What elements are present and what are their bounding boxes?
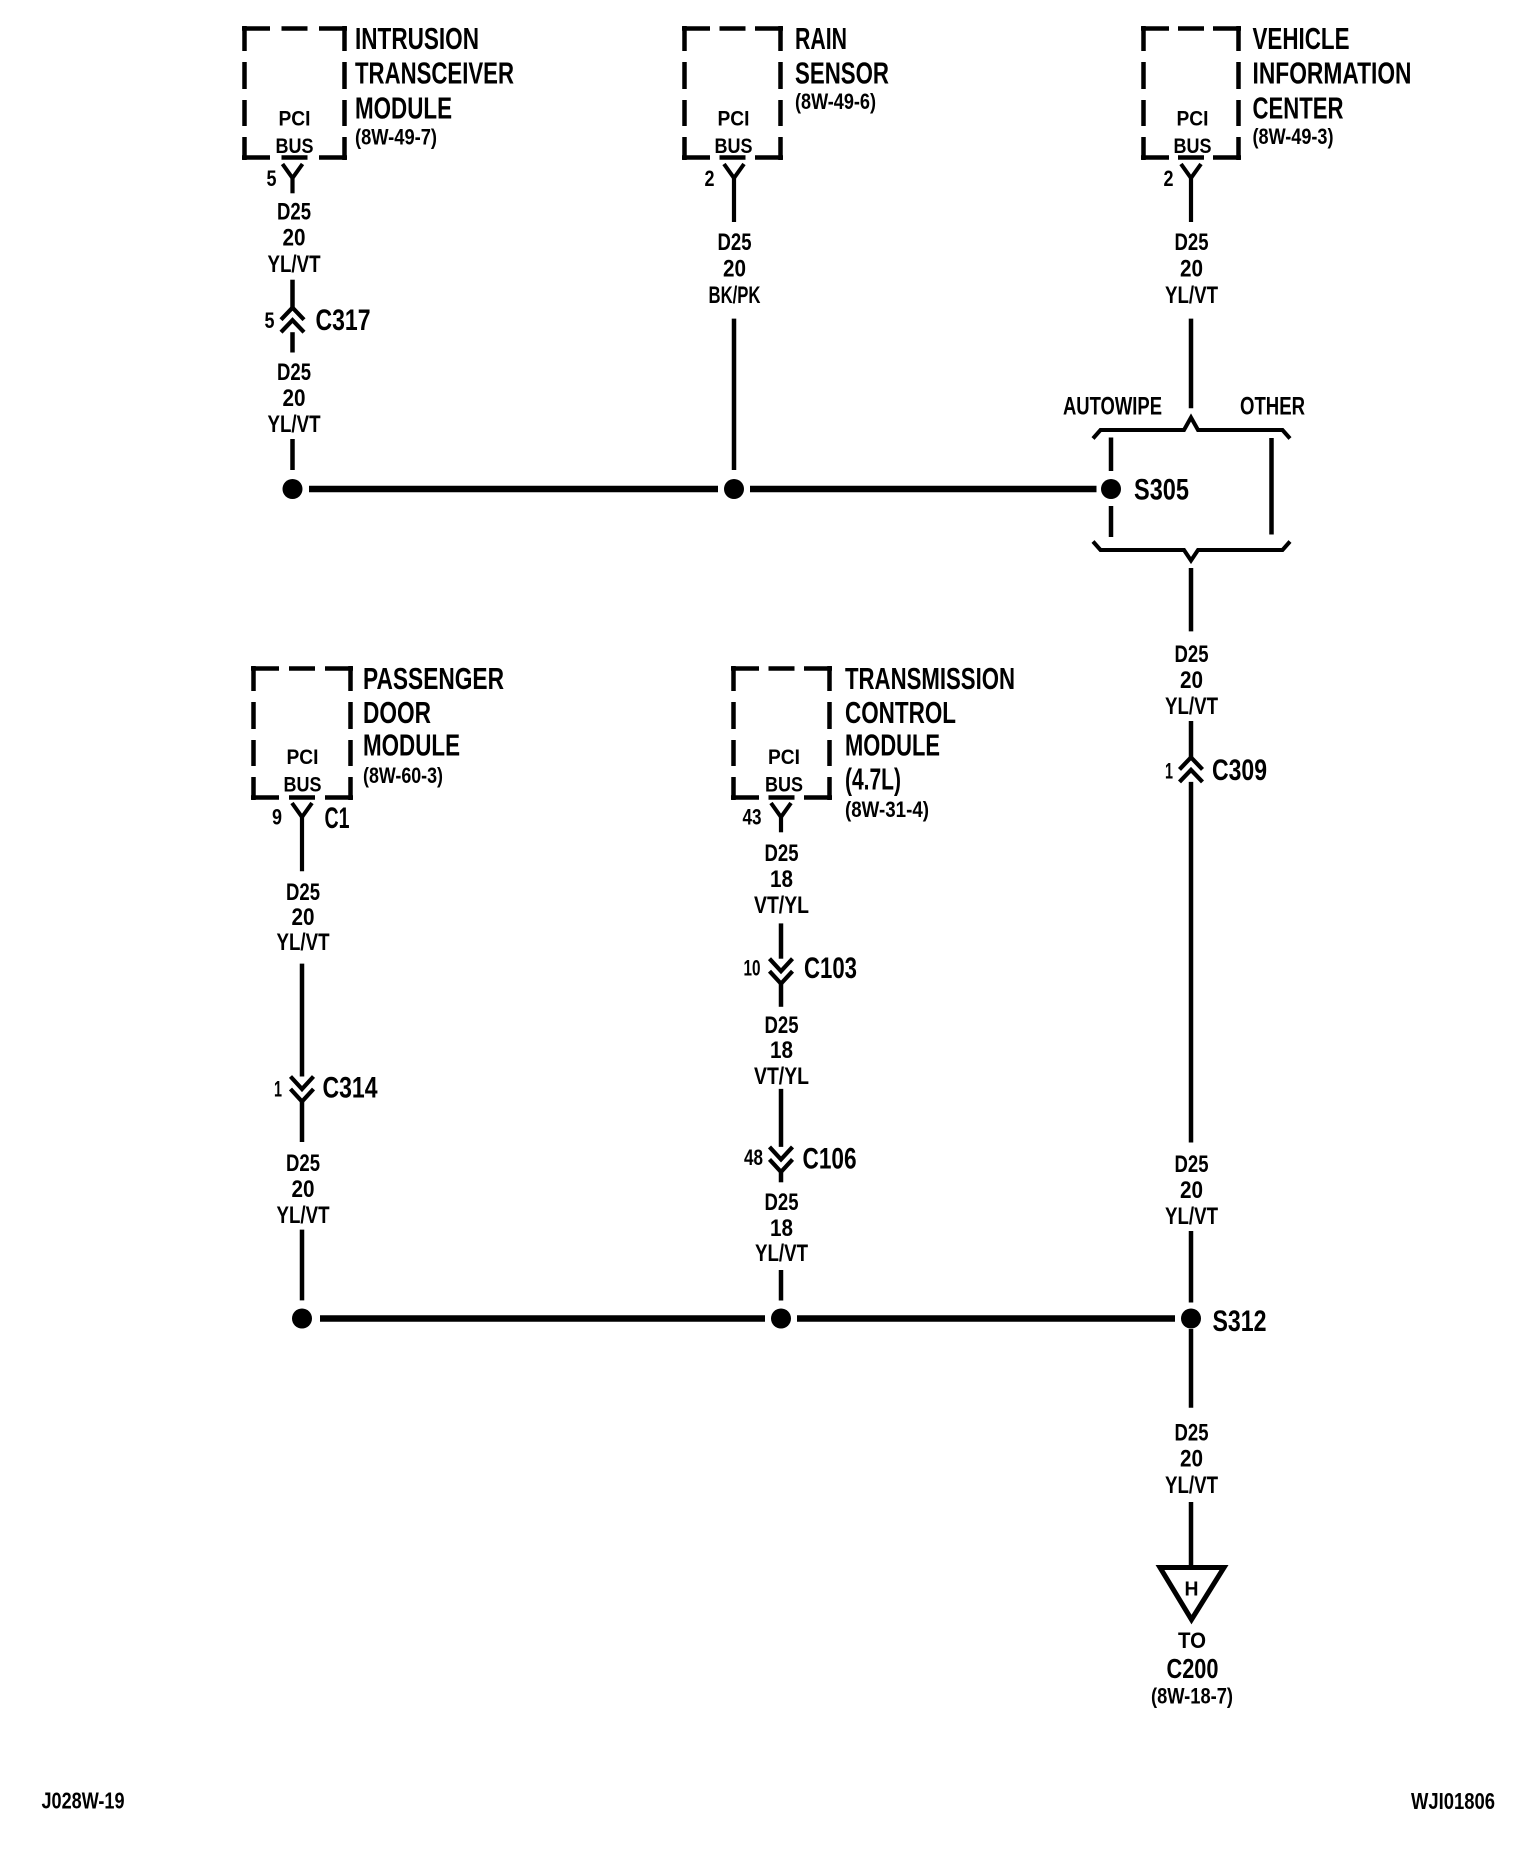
svg-text:C317: C317	[316, 304, 371, 337]
upper brace of splice S305 group	[1093, 418, 1290, 439]
wire D25 20 YL/VT from C317 down to PCI bus junction	[268, 359, 321, 470]
svg-text:YL/VT: YL/VT	[268, 251, 321, 278]
wire segment: OTHER branch inside brace	[1269, 438, 1274, 535]
svg-text:J028W-19: J028W-19	[42, 1788, 125, 1814]
svg-text:D25: D25	[765, 840, 799, 867]
svg-text:2: 2	[1164, 166, 1174, 191]
svg-text:(8W-60-3): (8W-60-3)	[363, 763, 443, 788]
svg-text:D25: D25	[718, 229, 752, 256]
drawing number J028W-19	[42, 1788, 125, 1814]
svg-text:INTRUSION: INTRUSION	[355, 21, 479, 56]
junction node: passenger door branch joins bus	[292, 1309, 312, 1329]
splice S305 junction dot	[1101, 474, 1189, 507]
wire D25 20 YL/VT from S312 down to off-page connector H	[1165, 1329, 1218, 1568]
svg-text:CENTER: CENTER	[1253, 91, 1344, 126]
module box: INTRUSION TRANSCEIVER MODULE (8W-49-7), PCI BUS	[242, 21, 514, 160]
svg-text:(8W-49-7): (8W-49-7)	[355, 125, 437, 150]
svg-text:YL/VT: YL/VT	[277, 1202, 330, 1229]
wire D25 20 YL/VT from passenger door module pin 9 to C314	[277, 879, 330, 1077]
svg-text:BK/PK: BK/PK	[709, 282, 761, 309]
svg-text:10: 10	[744, 956, 761, 981]
in-line connector C103 pin 10	[744, 952, 858, 1007]
svg-text:C200: C200	[1167, 1653, 1219, 1684]
svg-text:PCI: PCI	[1177, 108, 1209, 131]
off-page connector triangle H to C200 (8W-18-7)	[1151, 1568, 1233, 1709]
svg-text:2: 2	[705, 166, 715, 191]
svg-text:OTHER: OTHER	[1240, 393, 1305, 421]
svg-text:PCI: PCI	[768, 746, 800, 769]
svg-text:18: 18	[770, 1037, 793, 1064]
svg-text:(8W-49-6): (8W-49-6)	[795, 89, 876, 114]
pin 43 fork of transmission control module	[743, 803, 792, 832]
svg-text:D25: D25	[1175, 229, 1209, 256]
pin 2 fork of rain sensor	[705, 164, 745, 222]
svg-text:BUS: BUS	[715, 135, 753, 158]
svg-text:YL/VT: YL/VT	[1165, 693, 1218, 720]
svg-text:18: 18	[770, 1215, 793, 1242]
svg-text:CONTROL: CONTROL	[845, 695, 956, 730]
svg-text:BUS: BUS	[276, 135, 314, 158]
svg-text:9: 9	[272, 805, 282, 830]
svg-text:D25: D25	[765, 1012, 799, 1039]
bus wire: top PCI bus segment from intrusion junction to rain sensor junction	[309, 486, 718, 493]
svg-text:VT/YL: VT/YL	[754, 892, 809, 919]
svg-text:D25: D25	[286, 1150, 320, 1177]
svg-text:C106: C106	[803, 1143, 857, 1176]
svg-text:20: 20	[292, 904, 315, 931]
svg-text:C103: C103	[804, 952, 857, 985]
junction node: intrusion branch joins bus	[283, 479, 303, 499]
svg-text:AUTOWIPE: AUTOWIPE	[1063, 393, 1162, 421]
svg-text:MODULE: MODULE	[355, 91, 452, 126]
svg-text:20: 20	[283, 385, 306, 412]
svg-text:YL/VT: YL/VT	[1165, 282, 1218, 309]
pin 2 fork of vehicle information center	[1164, 164, 1202, 222]
wire segment: AUTOWIPE branch above splice S305	[1109, 438, 1114, 472]
svg-text:D25: D25	[1175, 641, 1209, 668]
label AUTOWIPE (left circuit of splice S305)	[1063, 393, 1162, 421]
svg-text:MODULE: MODULE	[363, 728, 460, 763]
svg-text:BUS: BUS	[284, 774, 322, 797]
svg-text:WJI01806: WJI01806	[1411, 1788, 1495, 1814]
wire D25 18 VT/YL from TCM pin 43 to C103	[754, 840, 809, 959]
wire D25 20 YL/VT from VIC pin 2 down to splice brace	[1165, 229, 1218, 408]
svg-text:INFORMATION: INFORMATION	[1253, 56, 1412, 91]
svg-text:20: 20	[1180, 1177, 1203, 1204]
in-line connector C309 pin 1	[1165, 754, 1267, 1143]
bus wire: bottom PCI bus segment from passenger door junction to TCM junction	[320, 1315, 765, 1322]
svg-text:20: 20	[1180, 667, 1203, 694]
wire D25 18 VT/YL from C103 to C106	[754, 1012, 809, 1147]
wire D25 20 YL/VT from S305 brace down to C309	[1165, 568, 1218, 757]
svg-text:5: 5	[265, 308, 275, 333]
svg-text:BUS: BUS	[1174, 135, 1212, 158]
svg-text:D25: D25	[277, 198, 311, 225]
label OTHER (right circuit of splice S305)	[1240, 393, 1305, 421]
pin 5 fork of intrusion transceiver module	[267, 164, 303, 193]
svg-text:C1: C1	[325, 802, 350, 835]
svg-text:20: 20	[283, 225, 306, 252]
svg-text:43: 43	[743, 805, 762, 830]
svg-text:PASSENGER: PASSENGER	[363, 661, 504, 696]
svg-text:(8W-31-4): (8W-31-4)	[845, 797, 929, 822]
bus wire: bottom PCI bus segment from TCM junction to splice S312	[797, 1315, 1175, 1322]
svg-text:MODULE: MODULE	[845, 728, 940, 763]
wire D25 20 YL/VT from C314 down to bus junction	[277, 1150, 330, 1300]
svg-text:48: 48	[744, 1145, 763, 1170]
svg-text:(4.7L): (4.7L)	[845, 762, 901, 797]
svg-text:D25: D25	[277, 359, 311, 386]
svg-text:TO: TO	[1178, 1628, 1206, 1653]
svg-text:S312: S312	[1213, 1305, 1267, 1338]
in-line connector C106 pin 48	[744, 1143, 857, 1183]
bus wire: top PCI bus segment from rain sensor junction to splice S305	[750, 486, 1097, 493]
svg-text:D25: D25	[765, 1189, 799, 1216]
in-line connector C317 pin 5	[265, 304, 371, 353]
svg-text:TRANSCEIVER: TRANSCEIVER	[355, 56, 514, 91]
svg-text:PCI: PCI	[279, 108, 311, 131]
svg-text:YL/VT: YL/VT	[755, 1240, 808, 1267]
wire D25 20 YL/VT from intrusion module pin 5 to C317	[268, 198, 321, 307]
svg-text:20: 20	[292, 1176, 315, 1203]
svg-text:1: 1	[274, 1077, 282, 1102]
svg-text:RAIN: RAIN	[795, 21, 847, 56]
svg-text:D25: D25	[1175, 1420, 1209, 1447]
svg-text:VT/YL: VT/YL	[754, 1063, 809, 1090]
svg-text:VEHICLE: VEHICLE	[1253, 21, 1350, 56]
svg-text:18: 18	[770, 866, 793, 893]
module box: TRANSMISSION CONTROL MODULE (4.7L) (8W-31-4), PCI BUS	[731, 661, 1015, 822]
wire D25 18 YL/VT from C106 down to bus junction	[755, 1189, 808, 1301]
svg-text:20: 20	[1180, 256, 1203, 283]
pin 9 fork of passenger door module, connector C1	[272, 802, 350, 871]
svg-text:H: H	[1185, 1579, 1199, 1601]
svg-text:C314: C314	[323, 1072, 378, 1105]
svg-text:YL/VT: YL/VT	[1165, 1203, 1218, 1230]
svg-text:(8W-18-7): (8W-18-7)	[1151, 1684, 1233, 1709]
module box: VEHICLE INFORMATION CENTER (8W-49-3), PCI BUS	[1141, 21, 1412, 160]
svg-text:YL/VT: YL/VT	[268, 411, 321, 438]
svg-text:BUS: BUS	[765, 774, 803, 797]
junction node: rain sensor branch joins bus	[724, 479, 744, 499]
svg-text:C309: C309	[1212, 754, 1267, 787]
svg-text:S305: S305	[1134, 474, 1189, 507]
svg-text:TRANSMISSION: TRANSMISSION	[845, 661, 1015, 696]
junction node: TCM branch joins bus	[771, 1309, 791, 1329]
svg-text:DOOR: DOOR	[363, 695, 431, 730]
wire D25 20 BK/PK from rain sensor pin 2 to bus junction	[709, 229, 761, 470]
module box: PASSENGER DOOR MODULE (8W-60-3), PCI BUS	[251, 661, 504, 800]
svg-text:1: 1	[1165, 759, 1173, 784]
splice S312 junction dot	[1181, 1305, 1267, 1338]
lower brace of splice S305 group	[1093, 542, 1290, 561]
wire D25 20 YL/VT from C309 down to splice S312	[1165, 1151, 1218, 1303]
svg-text:D25: D25	[286, 879, 320, 906]
svg-text:5: 5	[267, 166, 277, 191]
module box: RAIN SENSOR (8W-49-6), PCI BUS	[682, 21, 889, 160]
svg-text:YL/VT: YL/VT	[277, 929, 330, 956]
svg-text:PCI: PCI	[287, 746, 319, 769]
drawing number WJI01806	[1411, 1788, 1495, 1814]
svg-text:20: 20	[1180, 1446, 1203, 1473]
svg-text:YL/VT: YL/VT	[1165, 1472, 1218, 1499]
svg-text:D25: D25	[1175, 1151, 1209, 1178]
svg-text:(8W-49-3): (8W-49-3)	[1253, 124, 1334, 149]
in-line connector C314 pin 1	[274, 1072, 378, 1143]
wire segment: AUTOWIPE branch below splice S305	[1109, 506, 1114, 537]
svg-text:20: 20	[723, 256, 746, 283]
svg-text:SENSOR: SENSOR	[795, 56, 889, 91]
svg-text:PCI: PCI	[718, 108, 750, 131]
